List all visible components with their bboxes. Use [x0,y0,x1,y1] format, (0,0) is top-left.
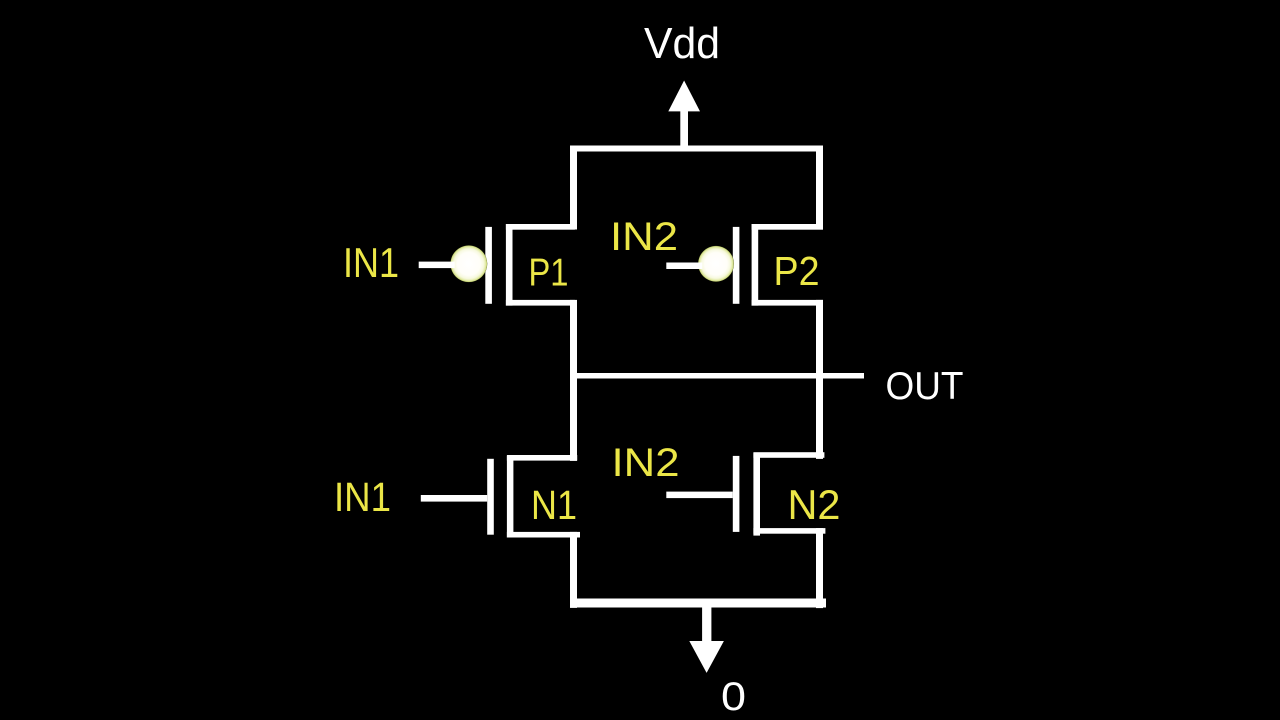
transistor P2 (PMOS) [733,224,823,306]
svg-text:Vdd: Vdd [644,19,720,68]
wire: P1 drain down to OUT rail [570,300,577,461]
transistor P1 (PMOS) [485,224,575,306]
wire: IN2 to N2 gate [666,492,733,499]
wire: N1 source down to ground rail [570,532,577,608]
transistor N2 (NMOS) [733,452,826,535]
svg-text:0: 0 [721,675,746,719]
svg-text:OUT: OUT [886,365,964,408]
svg-text:IN2: IN2 [610,215,678,259]
wire: left drop from Vdd rail to P1 source [570,146,577,230]
svg-text:P2: P2 [774,248,820,294]
svg-text:IN1: IN1 [334,474,391,520]
wire: ground rail [574,599,826,608]
wire: P2 drain down to OUT rail [816,300,823,459]
svg-text:IN2: IN2 [612,441,680,485]
ground arrow to 0 [689,603,724,673]
P2 gate bubble [698,246,734,282]
wire: Vdd top rail [570,146,823,152]
transistor N1 (NMOS) [487,455,580,538]
wire: OUT rail [574,373,864,379]
svg-text:N1: N1 [531,482,577,528]
Vdd power arrow [668,81,700,148]
P1 gate bubble [450,245,487,282]
svg-text:P1: P1 [529,252,569,295]
svg-text:N2: N2 [788,481,841,528]
wire: IN2 to P2 bubble [666,263,702,270]
wire: IN1 to P1 bubble [419,262,455,269]
wire: IN1 to N1 gate [421,495,487,502]
wire: right drop from Vdd rail to P2 source [816,146,823,230]
svg-text:IN1: IN1 [343,239,399,286]
wire: N2 source down to ground rail [816,528,823,608]
